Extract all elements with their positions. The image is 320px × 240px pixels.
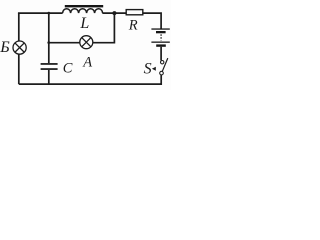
- inductor L coil: [63, 9, 103, 13]
- junction dot node lamp branch tee: [47, 41, 50, 44]
- wire bottom horizontal: [19, 83, 162, 85]
- svg-text:Б: Б: [0, 39, 10, 56]
- capacitor C top plate: [41, 63, 58, 65]
- switch S blade (open): [162, 58, 168, 71]
- wire capacitor branch lower: [48, 70, 50, 84]
- svg-text:A: A: [82, 55, 92, 71]
- wire switch to bottom-right corner: [160, 75, 161, 84]
- switch S top contact: [161, 61, 164, 64]
- battery GB cell1 short thick plate: [156, 31, 166, 33]
- lamp A (circle with cross): [80, 36, 93, 49]
- wire left vertical lower (lamp B to bottom corner): [18, 54, 20, 84]
- switch label arrowhead: [152, 67, 156, 71]
- junction dot node capacitor top tee: [47, 12, 50, 15]
- wire coil to resistor: [102, 12, 126, 14]
- junction dot node top (lamp branch / top wire): [112, 11, 116, 15]
- svg-text:C: C: [63, 60, 73, 76]
- wire capacitor branch upper: [48, 13, 50, 63]
- wire lamp A branch right and up to junction: [93, 13, 115, 43]
- inductor L core bar: [65, 5, 103, 7]
- svg-text:S: S: [144, 61, 152, 78]
- battery dotted line (omitted cells): [160, 34, 162, 40]
- wire lamp A branch left: [49, 42, 80, 44]
- lamp B (circle with cross): [13, 41, 26, 54]
- wire top-left segment: [19, 11, 63, 14]
- battery GB cell1 long plate: [151, 28, 169, 29]
- capacitor C bottom plate: [41, 68, 58, 70]
- battery GB cell2 long plate: [151, 42, 169, 43]
- wire resistor to top-right corner down to battery: [143, 13, 161, 28]
- battery GB cell2 short thick plate: [156, 44, 166, 46]
- svg-text:R: R: [128, 17, 138, 33]
- wire battery to switch: [160, 47, 162, 61]
- switch S bottom contact: [160, 71, 164, 75]
- resistor R: [126, 10, 143, 15]
- wire left vertical upper (top corner to lamp B): [18, 13, 20, 41]
- svg-text:L: L: [79, 15, 89, 32]
